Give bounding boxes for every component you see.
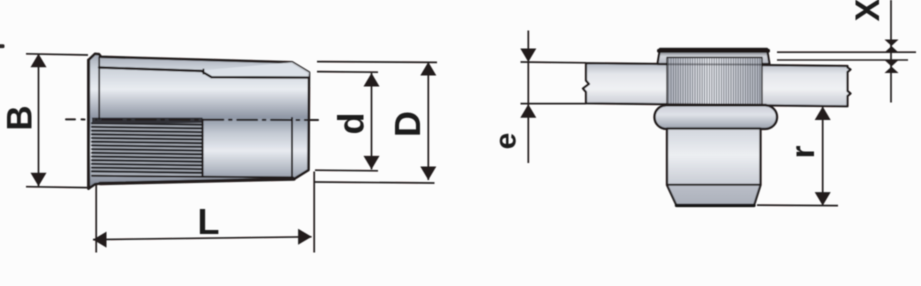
svg-text:r: r <box>784 145 821 158</box>
svg-text:B: B <box>1 105 40 130</box>
svg-text:L: L <box>198 201 220 242</box>
svg-text:e: e <box>490 133 523 150</box>
svg-text:d: d <box>331 113 372 135</box>
svg-text:D: D <box>387 111 428 137</box>
svg-text:X: X <box>849 0 887 21</box>
